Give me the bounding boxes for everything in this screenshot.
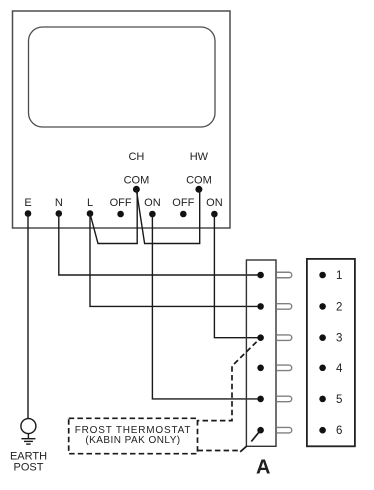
svg-text:CH: CH: [128, 151, 144, 163]
svg-text:E: E: [24, 197, 31, 209]
svg-text:EARTH: EARTH: [10, 451, 47, 463]
svg-text:A: A: [256, 457, 270, 479]
svg-text:HW: HW: [190, 151, 209, 163]
svg-text:5: 5: [336, 394, 342, 406]
svg-text:POST: POST: [14, 462, 44, 474]
svg-text:2: 2: [336, 301, 342, 313]
svg-text:COM: COM: [186, 175, 212, 187]
svg-text:(KABIN PAK ONLY): (KABIN PAK ONLY): [85, 435, 180, 446]
svg-text:L: L: [87, 197, 93, 209]
svg-text:N: N: [55, 197, 63, 209]
svg-text:3: 3: [336, 333, 342, 345]
svg-text:ON: ON: [206, 197, 223, 209]
svg-text:OFF: OFF: [110, 197, 132, 209]
svg-text:1: 1: [336, 270, 342, 282]
svg-text:COM: COM: [124, 175, 150, 187]
svg-text:6: 6: [336, 425, 342, 437]
svg-text:ON: ON: [144, 197, 161, 209]
svg-text:4: 4: [336, 363, 343, 375]
svg-text:OFF: OFF: [172, 197, 194, 209]
